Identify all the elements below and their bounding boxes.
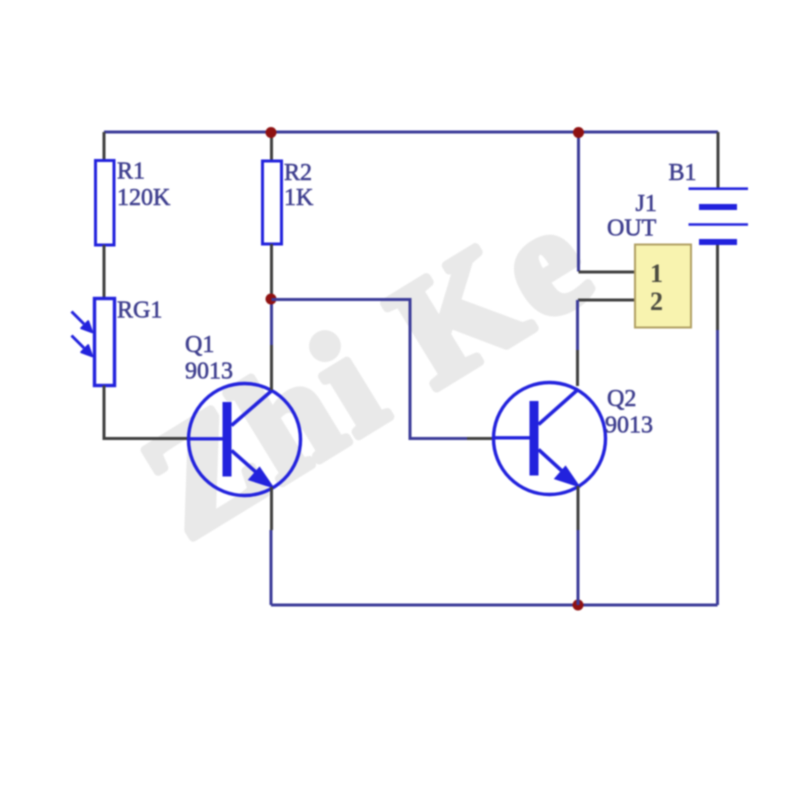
svg-text:R2: R2: [284, 160, 312, 186]
svg-text:J1: J1: [636, 191, 657, 217]
svg-text:9013: 9013: [605, 413, 653, 439]
connector J1 box: [635, 245, 691, 328]
wire node to Q2 base: [272, 300, 468, 439]
junction dot R2 bottom node: [266, 294, 277, 305]
battery B1: [689, 189, 749, 242]
resistor R2: [263, 161, 282, 244]
transistor Q1: [189, 384, 301, 496]
resistor R1: [96, 161, 115, 246]
wire R1 to RG1: [103, 245, 106, 299]
wire bottom rail: [271, 604, 718, 607]
wire left drop to R1: [103, 132, 106, 161]
svg-text:1K: 1K: [284, 185, 314, 211]
svg-text:R1: R1: [117, 159, 145, 185]
wire R2 top pin: [270, 133, 273, 161]
junction dot bottom rail: [573, 600, 584, 611]
svg-text:2: 2: [650, 287, 663, 316]
wire RG1 to Q1 base: [104, 386, 190, 439]
wire pin2 down to Q2 collector: [576, 300, 579, 350]
svg-text:OUT: OUT: [607, 216, 657, 242]
transistor Q2: [494, 383, 606, 495]
wire J1 pin2 stub: [578, 299, 635, 302]
svg-text:120K: 120K: [117, 185, 171, 211]
wire node to Q1 collector: [270, 299, 273, 345]
junction dot top rail at J1: [573, 127, 584, 138]
wire battery to bottom rail: [716, 245, 719, 330]
photoresistor RG1: [95, 299, 115, 386]
wire right rail top to battery: [717, 132, 720, 189]
junction dot top rail at R2: [266, 127, 277, 138]
wire J1 pin1 stub: [579, 271, 636, 274]
svg-text:Q1: Q1: [185, 332, 214, 358]
wire Q2 emitter down: [577, 486, 580, 530]
wire Q2 base pin stub: [467, 437, 494, 440]
svg-text:B1: B1: [669, 160, 697, 186]
wire top rail to J1 pin1: [577, 133, 580, 272]
RG1 light arrow 2: [72, 336, 93, 357]
svg-text:Q2: Q2: [607, 386, 636, 412]
wire R2 bottom to node: [270, 244, 273, 299]
RG1 light arrow 1: [72, 312, 93, 333]
svg-text:RG1: RG1: [117, 298, 162, 324]
svg-text:9013: 9013: [185, 359, 233, 385]
wire top rail: [104, 131, 718, 134]
wire Q1 emitter down: [270, 487, 273, 530]
svg-text:1: 1: [650, 259, 663, 288]
